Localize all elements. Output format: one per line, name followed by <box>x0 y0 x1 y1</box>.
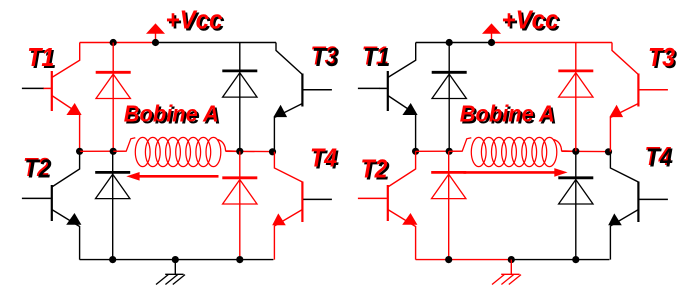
wire mid rail left segment (left) <box>80 150 127 152</box>
wire mid rail left segment (right) <box>416 150 463 152</box>
transistor T1 (right) <box>358 43 418 152</box>
label Bobine A (right) <box>460 100 557 128</box>
label T4 (right) <box>645 143 674 173</box>
diode D2 (left) <box>95 172 130 198</box>
node bottom rail / ground (right) <box>508 256 515 263</box>
wire bottom rail left segment (right) <box>416 259 512 261</box>
svg-text:T3: T3 <box>648 44 675 72</box>
label +Vcc (left) <box>166 7 225 37</box>
transistor T4 (right) <box>608 152 668 260</box>
node top rail / +Vcc (right) <box>488 39 495 46</box>
wire D2 branch (right) <box>448 151 450 259</box>
wire top rail Vcc-left segment (right) <box>416 42 492 44</box>
wire top rail Vcc-right segment (right) <box>492 42 613 44</box>
diode D2 (right) <box>431 172 466 198</box>
label T3 (right) <box>648 44 677 74</box>
diode D4 (left) <box>222 178 257 204</box>
node mid rail right (right) <box>605 148 612 155</box>
wire D1 branch (right) <box>448 43 450 152</box>
transistor T3 (left) <box>273 43 332 152</box>
node bottom rail / ground (left) <box>172 256 179 263</box>
label T4 (left) <box>310 144 339 174</box>
label T2 (left) <box>23 154 52 184</box>
transistor T2 (right) <box>358 151 418 259</box>
node mid rail right (left) <box>269 148 276 155</box>
wire D3 branch (right) <box>575 43 577 152</box>
node mid rail left (right) <box>412 148 419 155</box>
diode D4 (right) <box>558 178 593 204</box>
node top rail / +Vcc (left) <box>152 39 159 46</box>
diode D1 (right) <box>432 72 467 98</box>
wire D3 branch (left) <box>239 43 241 152</box>
diode D3 (right) <box>558 71 593 97</box>
node bottom rail / D2 (right) <box>445 256 452 263</box>
label +Vcc (right) <box>502 7 561 37</box>
wire D2 branch (left) <box>112 151 114 259</box>
node mid rail / D1-D2 (left) <box>110 148 117 155</box>
label T1 (left) <box>27 44 56 74</box>
wire bottom rail left segment (left) <box>80 259 176 261</box>
transistor T2 (left) <box>22 151 82 259</box>
svg-text:T3: T3 <box>312 44 339 72</box>
wire D4 branch (right) <box>575 151 577 259</box>
ground (right) <box>492 260 521 285</box>
transistor T3 (right) <box>609 43 668 152</box>
svg-text:Bobine A: Bobine A <box>124 100 219 126</box>
ground (left) <box>156 260 185 285</box>
inductor coil Bobine A (left) <box>113 137 240 166</box>
node bottom rail / D2 (left) <box>109 256 116 263</box>
node mid rail / D3-D4 (right) <box>572 148 579 155</box>
svg-text:T4: T4 <box>310 144 337 172</box>
wire bottom rail right segment (right) <box>511 259 609 261</box>
+Vcc power symbol (right) <box>482 23 501 42</box>
label T2 (right) <box>361 155 390 185</box>
label Bobine A (left) <box>124 100 221 128</box>
node bottom rail / D4 (left) <box>236 256 243 263</box>
svg-text:T1: T1 <box>27 44 54 72</box>
svg-text:T2: T2 <box>25 155 52 183</box>
svg-text:T2: T2 <box>361 155 388 183</box>
wire top rail Vcc-right segment (left) <box>156 42 277 44</box>
wire mid rail right segment (right) <box>562 150 609 152</box>
current direction arrow (right, pointing right) <box>464 168 568 177</box>
svg-text:T1: T1 <box>363 44 390 72</box>
diode D3 (left) <box>222 71 257 97</box>
svg-text:+Vcc: +Vcc <box>502 7 559 35</box>
svg-text:Bobine A: Bobine A <box>460 100 555 126</box>
node top rail / D1 anode (right) <box>446 39 453 46</box>
node mid rail left (left) <box>76 148 83 155</box>
wire mid rail right segment (left) <box>226 150 273 152</box>
node bottom rail / D4 (right) <box>572 256 579 263</box>
wire top rail Vcc-left segment (left) <box>80 42 156 44</box>
transistor T1 (left) <box>22 43 82 152</box>
diode D1 (left) <box>96 72 131 98</box>
current direction arrow (left, pointing left) <box>126 172 218 181</box>
wire D4 branch (left) <box>239 151 241 259</box>
inductor coil Bobine A (right) <box>449 137 576 166</box>
node mid rail / D3-D4 (left) <box>236 148 243 155</box>
transistor T4 (left) <box>272 152 332 260</box>
node mid rail / D1-D2 (right) <box>446 148 453 155</box>
node top rail / D1 anode (left) <box>110 39 117 46</box>
svg-text:T4: T4 <box>646 144 673 172</box>
wire D1 branch (left) <box>112 43 114 152</box>
svg-text:+Vcc: +Vcc <box>166 7 223 35</box>
label T1 (right) <box>362 43 391 73</box>
label T3 (left) <box>311 42 340 72</box>
+Vcc power symbol (left) <box>146 23 165 42</box>
wire bottom rail right segment (left) <box>175 259 273 261</box>
